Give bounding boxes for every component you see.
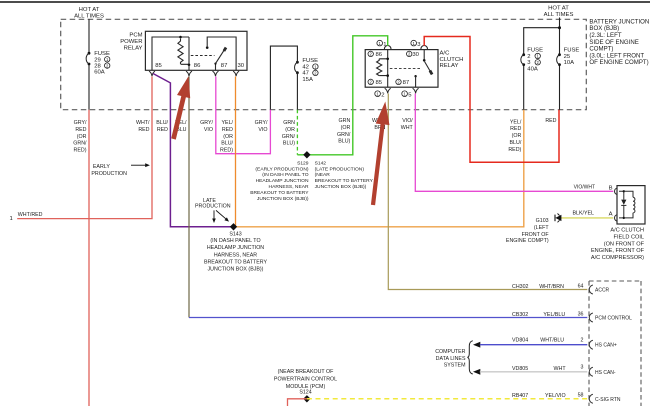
svg-text:ALL TIMES: ALL TIMES xyxy=(544,12,574,18)
svg-text:B: B xyxy=(609,185,613,191)
svg-text:PCM: PCM xyxy=(129,32,142,38)
svg-text:ALL TIMES: ALL TIMES xyxy=(74,13,104,19)
pin connector symbols under K1 xyxy=(149,71,155,76)
svg-text:36: 36 xyxy=(578,312,584,318)
svg-text:BREAKOUT TO BATTERY: BREAKOUT TO BATTERY xyxy=(315,178,374,184)
svg-text:WHT: WHT xyxy=(401,125,414,131)
svg-text:GRN: GRN xyxy=(283,120,295,126)
svg-text:HS CAN+: HS CAN+ xyxy=(595,343,617,349)
svg-text:HOT AT: HOT AT xyxy=(548,5,569,11)
svg-text:GRY/: GRY/ xyxy=(200,120,213,126)
pin 86 label (circled 2) xyxy=(368,51,373,56)
wire: GRY/RED vertical from fuse 29/28 xyxy=(88,110,90,406)
relay K2 switch xyxy=(423,50,425,60)
svg-text:RED: RED xyxy=(138,127,149,133)
svg-text:GRN/: GRN/ xyxy=(337,132,351,138)
relay K2: A/C clutch relay xyxy=(365,50,438,88)
svg-text:42: 42 xyxy=(302,64,309,70)
A/C clutch field coil xyxy=(617,186,645,224)
svg-text:FIELD COIL: FIELD COIL xyxy=(614,234,644,240)
svg-text:COMPUTER: COMPUTER xyxy=(435,349,465,355)
svg-text:YEL/: YEL/ xyxy=(222,120,234,126)
svg-text:HS CAN-: HS CAN- xyxy=(595,370,616,376)
svg-text:BREAKOUT TO BATTERY: BREAKOUT TO BATTERY xyxy=(250,190,309,196)
svg-text:CLUTCH: CLUTCH xyxy=(440,57,464,63)
svg-text:CB302: CB302 xyxy=(512,312,528,318)
svg-text:RB407: RB407 xyxy=(512,393,528,399)
svg-text:EARLY: EARLY xyxy=(93,164,110,170)
pin 2 connector xyxy=(385,88,391,93)
junction xyxy=(558,26,561,29)
wire: left feed into fuse 29/28 xyxy=(88,19,90,109)
svg-text:CH302: CH302 xyxy=(512,284,529,290)
svg-text:(NEAR: (NEAR xyxy=(315,172,331,178)
svg-text:WHT: WHT xyxy=(554,366,567,372)
svg-text:ENGINE, FRONT OF: ENGINE, FRONT OF xyxy=(591,248,645,254)
field coil diode xyxy=(623,191,625,218)
svg-text:VD804: VD804 xyxy=(512,338,528,344)
svg-text:YEL/BLU: YEL/BLU xyxy=(543,312,565,318)
svg-text:87: 87 xyxy=(403,80,410,86)
pin 1 label (circled 1) xyxy=(377,40,383,46)
svg-text:BLU): BLU) xyxy=(283,141,295,147)
svg-text:FUSE: FUSE xyxy=(527,48,543,54)
wire: YEL/BLU from pin 86 xyxy=(188,77,190,318)
svg-text:PRODUCTION: PRODUCTION xyxy=(91,171,127,177)
svg-text:87: 87 xyxy=(221,63,228,69)
svg-text:POWER: POWER xyxy=(120,39,142,45)
svg-text:25: 25 xyxy=(564,54,571,60)
pin 1 connector (dome) xyxy=(384,45,391,49)
svg-text:(OR: (OR xyxy=(512,133,522,139)
fuse 29/28 60A xyxy=(88,52,91,55)
svg-text:RED: RED xyxy=(75,127,86,133)
svg-text:WHT/BLU: WHT/BLU xyxy=(540,338,564,344)
svg-text:2: 2 xyxy=(527,54,530,60)
svg-text:3: 3 xyxy=(581,365,584,371)
relay K1 coil xyxy=(152,37,189,70)
svg-text:G103: G103 xyxy=(536,218,549,224)
wire: GRN from splice S129/S142 to relay K2 pin 1 xyxy=(297,36,387,155)
svg-text:S129: S129 xyxy=(297,160,309,166)
svg-text:OF ENGINE COMPT): OF ENGINE COMPT) xyxy=(589,59,648,66)
wire: BLU/RED from pin 85 to splice S143 xyxy=(153,74,232,227)
field coil winding xyxy=(624,191,633,218)
wire: RB407 YEL/VIO dashed to PCM xyxy=(307,398,587,400)
svg-text:86: 86 xyxy=(376,52,383,58)
svg-text:S124: S124 xyxy=(299,390,311,396)
wire: BLK/YEL from G103 to field coil A xyxy=(561,217,614,219)
wire: GRN dashed from fuse 42/47 xyxy=(296,110,298,155)
svg-text:BLU): BLU) xyxy=(338,139,350,145)
pin 5 label (circled 1) xyxy=(402,91,408,97)
svg-text:1: 1 xyxy=(10,216,13,222)
svg-text:GRN/: GRN/ xyxy=(73,141,87,147)
net VD804 WHT/BLU pin 2 (HS CAN+) xyxy=(473,342,480,348)
pin 5 connector xyxy=(413,88,419,93)
wire: VIO/WHT from relay K2 pin 5 to field coil B xyxy=(415,94,613,192)
svg-text:RELAY: RELAY xyxy=(440,63,459,69)
pin 3 connector (dome) xyxy=(421,45,428,49)
pin 85 label (circled 2) xyxy=(368,79,373,84)
svg-text:HARNESS, NEAR: HARNESS, NEAR xyxy=(214,252,257,258)
fuse 2/3 40A xyxy=(522,53,525,56)
svg-text:PCM CONTROL: PCM CONTROL xyxy=(595,315,632,321)
svg-text:A/C: A/C xyxy=(440,51,451,57)
svg-text:VIO/: VIO/ xyxy=(402,118,413,124)
svg-text:S142: S142 xyxy=(315,160,327,166)
svg-text:RED: RED xyxy=(545,118,556,124)
splice S143 xyxy=(230,223,237,230)
svg-text:10A: 10A xyxy=(564,60,575,66)
svg-text:GRY/: GRY/ xyxy=(74,120,87,126)
svg-text:JUNCTION BOX (BJB)): JUNCTION BOX (BJB)) xyxy=(208,267,264,273)
fuse 25 10A xyxy=(558,53,561,56)
svg-text:A/C CLUTCH: A/C CLUTCH xyxy=(610,228,644,234)
svg-text:C-SIG RTN: C-SIG RTN xyxy=(595,397,621,403)
wire: WHT/BRN from relay K2 pin 2 to PCM (CH302) xyxy=(388,94,587,290)
svg-text:YEL/: YEL/ xyxy=(510,119,522,125)
svg-text:RELAY: RELAY xyxy=(124,46,143,52)
svg-text:DATA LINES: DATA LINES xyxy=(436,356,466,362)
svg-text:PRODUCTION: PRODUCTION xyxy=(195,204,231,210)
relay K1 switch xyxy=(207,37,236,70)
svg-text:ENGINE COMPT): ENGINE COMPT) xyxy=(506,238,549,244)
svg-text:VIO/WHT: VIO/WHT xyxy=(574,184,595,190)
wire: WHT/RED from pin 85 to connector 1 xyxy=(17,77,152,219)
wire: YEL/RED from pin 30 to splice S143 xyxy=(235,77,237,227)
svg-text:FUSE: FUSE xyxy=(302,58,318,64)
svg-text:YEL/VIO: YEL/VIO xyxy=(545,393,566,399)
PCM connector box (dashed) xyxy=(589,281,641,406)
fuse 42/47 15A xyxy=(296,61,299,64)
svg-text:(LEFT: (LEFT xyxy=(534,225,549,231)
svg-text:40A: 40A xyxy=(527,66,538,72)
svg-text:VIO: VIO xyxy=(258,127,267,133)
wire: pin 87 feed inside BJB to fuse 42/47 xyxy=(270,46,297,110)
svg-text:GRN: GRN xyxy=(339,118,351,124)
svg-text:FRONT OF: FRONT OF xyxy=(522,232,550,238)
annotation arrow 2 (points at K2 pin 2) xyxy=(371,102,390,206)
svg-text:POWERTRAIN CONTROL: POWERTRAIN CONTROL xyxy=(274,376,337,382)
svg-text:HARNESS, NEAR: HARNESS, NEAR xyxy=(269,184,309,190)
svg-text:29: 29 xyxy=(94,57,101,63)
wire: CB302 YEL/BLU to PCM xyxy=(189,317,587,319)
svg-text:SYSTEM: SYSTEM xyxy=(444,363,466,369)
svg-text:GRN/: GRN/ xyxy=(282,134,296,140)
pin 3 label (circled 1) xyxy=(411,40,417,46)
relay K2 armature link (dashed) xyxy=(390,67,422,69)
svg-text:85: 85 xyxy=(155,63,162,69)
svg-text:(EARLY PRODUCTION): (EARLY PRODUCTION) xyxy=(255,166,308,172)
svg-text:(OR: (OR xyxy=(223,134,233,140)
svg-text:BLU/: BLU/ xyxy=(510,140,522,146)
svg-text:15A: 15A xyxy=(302,77,313,83)
svg-text:2: 2 xyxy=(381,92,384,98)
svg-text:HOT AT: HOT AT xyxy=(79,7,100,13)
svg-text:HEADLAMP JUNCTION: HEADLAMP JUNCTION xyxy=(256,178,309,184)
svg-text:30: 30 xyxy=(238,63,245,69)
svg-text:(NEAR BREAKOUT OF: (NEAR BREAKOUT OF xyxy=(278,369,335,375)
svg-text:(IN DASH PANEL TO: (IN DASH PANEL TO xyxy=(262,172,308,178)
ground G103 xyxy=(554,215,556,222)
wire: RED from relay K2 pin 3 to fuse 25 xyxy=(424,37,559,163)
splice S129/S142 xyxy=(303,151,310,158)
svg-text:GRY/: GRY/ xyxy=(255,120,268,126)
svg-text:JUNCTION BOX (BJB)): JUNCTION BOX (BJB)) xyxy=(315,184,367,190)
svg-text:S143: S143 xyxy=(229,232,241,238)
svg-text:ACCR: ACCR xyxy=(595,287,610,293)
svg-text:FUSE: FUSE xyxy=(564,48,580,54)
svg-text:RED): RED) xyxy=(220,148,233,154)
svg-text:BLU/: BLU/ xyxy=(156,120,168,126)
svg-text:(IN DASH PANEL TO: (IN DASH PANEL TO xyxy=(210,238,260,244)
battery junction box BJB (dashed outline) xyxy=(61,19,587,109)
svg-text:RED: RED xyxy=(510,126,521,132)
pin 87 label (circled 2) xyxy=(396,79,401,84)
svg-text:30: 30 xyxy=(412,52,419,58)
wire: GRY/VIO from pin 87 up to fuse 42/47 xyxy=(216,77,271,154)
svg-text:RED): RED) xyxy=(74,148,87,154)
svg-text:60A: 60A xyxy=(94,69,105,75)
svg-text:47: 47 xyxy=(302,71,309,77)
svg-text:WHT/RED: WHT/RED xyxy=(18,212,43,218)
annotation arrow 1 (points at K1 pin 86) xyxy=(171,76,190,139)
svg-text:WHT/: WHT/ xyxy=(136,120,150,126)
svg-text:64: 64 xyxy=(578,284,584,290)
svg-text:RED: RED xyxy=(157,127,168,133)
svg-text:A: A xyxy=(609,212,613,218)
pin 2 label (circled 1) xyxy=(375,91,381,97)
relay K2 coil xyxy=(379,50,388,88)
svg-text:(ON FRONT OF: (ON FRONT OF xyxy=(604,241,645,247)
svg-text:VIO: VIO xyxy=(204,127,213,133)
svg-text:(LATE PRODUCTION): (LATE PRODUCTION) xyxy=(315,166,365,172)
svg-text:HEADLAMP JUNCTION: HEADLAMP JUNCTION xyxy=(207,245,264,251)
svg-text:JUNCTION BOX (BJB)): JUNCTION BOX (BJB)) xyxy=(257,196,309,202)
relay K1 armature link (dashed) xyxy=(191,55,215,57)
svg-text:BREAKOUT TO BATTERY: BREAKOUT TO BATTERY xyxy=(204,259,268,265)
pin 30 label (circled 2) xyxy=(407,51,412,56)
svg-text:RED): RED) xyxy=(508,147,521,153)
svg-text:86: 86 xyxy=(194,63,201,69)
wire: YEL/RED horizontal S143 to fuse 2/3 xyxy=(233,110,524,227)
svg-text:VD805: VD805 xyxy=(512,366,528,372)
svg-text:(OR: (OR xyxy=(341,125,351,131)
svg-text:2: 2 xyxy=(581,338,584,344)
svg-text:58: 58 xyxy=(578,392,584,398)
svg-text:85: 85 xyxy=(376,80,383,86)
svg-text:BLU/: BLU/ xyxy=(221,141,233,147)
svg-text:A/C COMPRESSOR): A/C COMPRESSOR) xyxy=(591,255,644,261)
svg-text:RED: RED xyxy=(222,127,233,133)
net VD805 WHT pin 3 (HS CAN-) xyxy=(473,369,480,375)
wire: red stub at S124 xyxy=(288,399,307,406)
svg-text:WHT/BRN: WHT/BRN xyxy=(539,284,564,290)
svg-text:BLK/YEL: BLK/YEL xyxy=(573,211,595,217)
svg-text:(OR: (OR xyxy=(285,127,295,133)
svg-text:(OR: (OR xyxy=(77,134,87,140)
wire: right feed and branch to fuses xyxy=(524,18,560,110)
